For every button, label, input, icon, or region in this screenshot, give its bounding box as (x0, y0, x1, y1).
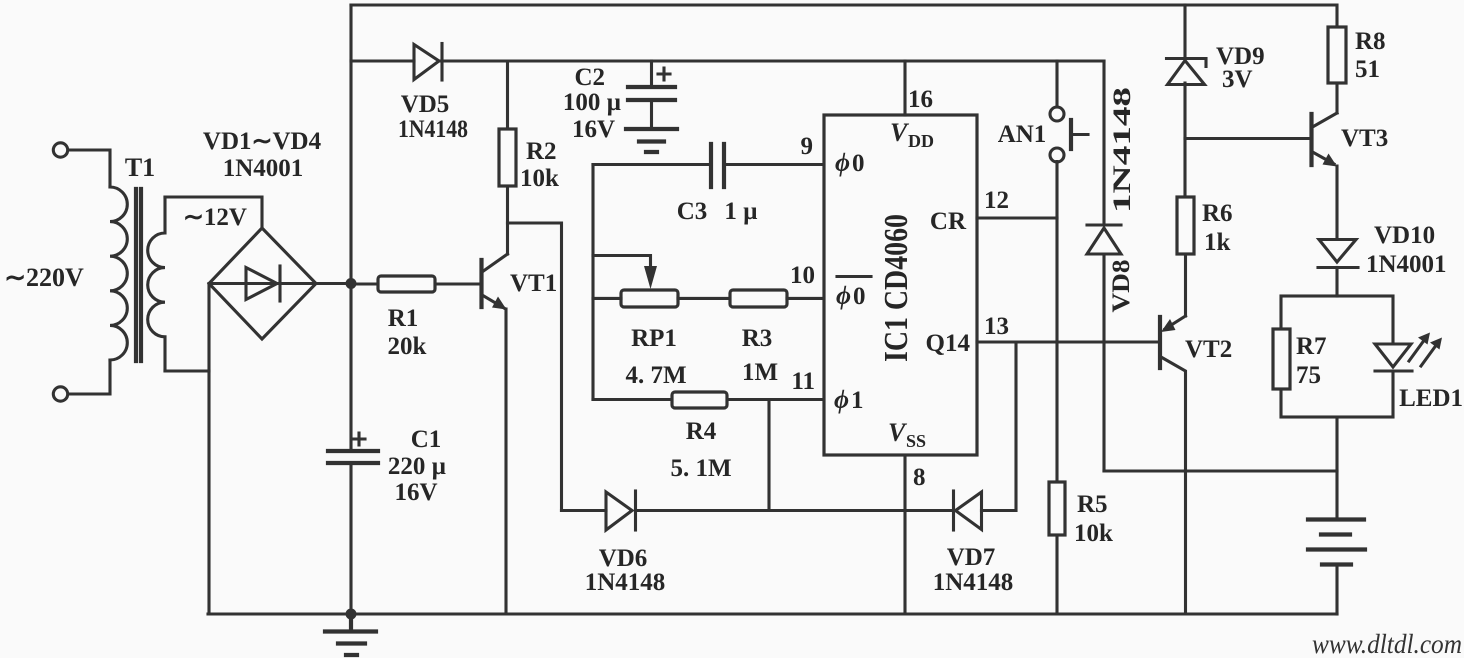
wire C2 top lead (650, 61, 653, 87)
svg-text:5. 1M: 5. 1M (670, 455, 731, 482)
svg-text:R3: R3 (742, 325, 773, 352)
resistor R8 (1328, 27, 1346, 83)
wire oscillator left bus (591, 165, 594, 400)
wire left vertical bus lower (349, 463, 352, 614)
svg-text:DD: DD (908, 131, 934, 151)
terminal primary bottom (53, 387, 67, 401)
resistor R6 (1177, 197, 1194, 254)
transistor VT1 (479, 260, 483, 307)
ground C2 (626, 129, 677, 152)
svg-text:1k: 1k (1204, 229, 1231, 256)
svg-text:11: 11 (791, 368, 815, 395)
svg-text:VT1: VT1 (510, 270, 557, 297)
wire AN1 top lead (1055, 61, 1058, 107)
svg-text:CR: CR (930, 208, 967, 235)
wire C2 bottom lead (650, 100, 653, 129)
node rectifier output junction (346, 278, 357, 289)
svg-text:4. 7M: 4. 7M (625, 362, 686, 389)
svg-text:VD6: VD6 (599, 545, 648, 572)
svg-text:R6: R6 (1202, 200, 1233, 227)
wire R3 to pin 10 (787, 297, 824, 300)
wire VT1 emitter to ground rail (504, 309, 507, 614)
svg-text:16V: 16V (394, 479, 437, 506)
resistor R1 (378, 276, 435, 292)
svg-text:RP1: RP1 (631, 325, 677, 352)
resistor R7 (1273, 329, 1290, 389)
svg-text:C2: C2 (574, 64, 605, 91)
wire battery to ground rail (1335, 565, 1338, 614)
wire VD8 cathode lead (1102, 61, 1105, 225)
svg-text:V: V (890, 118, 910, 147)
push button AN1 (1050, 107, 1064, 121)
svg-text:∼12V: ∼12V (183, 204, 247, 231)
svg-text:1N4001: 1N4001 (1366, 251, 1447, 278)
wire AN1 bottom lead to R5 (1055, 162, 1058, 483)
svg-text:1N4148: 1N4148 (398, 116, 468, 143)
svg-text:R5: R5 (1077, 491, 1108, 518)
ground main (325, 614, 376, 655)
svg-text:C3: C3 (677, 198, 708, 225)
svg-text:T1: T1 (125, 153, 155, 182)
potentiometer RP1 (621, 290, 678, 307)
wire VT3 base (1185, 137, 1311, 140)
wire battery positive row (1104, 469, 1337, 472)
terminal primary top (53, 143, 67, 157)
resistor R5 (1049, 482, 1065, 535)
svg-text:220 µ: 220 µ (388, 453, 446, 480)
wire R7 LED1 parallel loop (1281, 296, 1393, 417)
svg-text:ϕ: ϕ (836, 281, 851, 310)
svg-text:3V: 3V (1222, 66, 1253, 93)
wire bridge negative leg to ground rail (207, 284, 210, 615)
svg-text:www.dltdl.com: www.dltdl.com (1312, 629, 1462, 658)
capacitor C2 (628, 87, 675, 100)
wire primary bottom lead (68, 360, 110, 394)
wire VD7 to Q14 row (982, 342, 1017, 511)
svg-text:1N4148: 1N4148 (1109, 87, 1136, 213)
svg-text:1 µ: 1 µ (724, 198, 757, 225)
svg-text:1N4148: 1N4148 (933, 569, 1014, 596)
wire VT3 emitter to VD10 (1335, 166, 1338, 238)
wire pin 11 row to VD6 row (767, 400, 770, 511)
resistor R3 (730, 290, 787, 307)
svg-text:1N4001: 1N4001 (223, 155, 304, 182)
wire R5 to ground rail (1055, 535, 1058, 614)
wire VT2 collector to ground rail (1161, 357, 1186, 614)
diode VD10 (1319, 240, 1356, 263)
svg-text:10k: 10k (520, 165, 559, 192)
wire VDD supply rail (441, 59, 1104, 62)
wire R2 bottom branch to VD6 row (508, 223, 562, 511)
wire VD9 cathode lead (1183, 5, 1186, 58)
bridge rectifier VD1~VD4 diamond (209, 228, 316, 339)
IC U1 CD4060 body (824, 115, 977, 455)
transistor VT2 (1158, 317, 1162, 368)
wire primary top lead (68, 150, 110, 187)
wire node to R1 and R1 to VT1 base (351, 282, 480, 285)
svg-text:LED1: LED1 (1399, 385, 1463, 412)
zener diode VD9 (1167, 59, 1207, 67)
svg-text:1: 1 (851, 387, 864, 414)
polarity plus C2 (658, 68, 670, 80)
wire top supply bus from left bus to R8 (351, 5, 1337, 27)
wire secondary bottom lead (165, 369, 209, 372)
wire bridge output to node (316, 282, 351, 285)
diode VD6 (606, 492, 632, 530)
wire pin 13 to VT2 base (977, 340, 1160, 343)
wire VD9 anode to R6 and VT3 base node (1183, 83, 1186, 197)
node ground junction (346, 609, 357, 620)
svg-text:8: 8 (913, 464, 926, 491)
svg-text:R2: R2 (526, 138, 557, 165)
transformer T1 primary winding (110, 187, 127, 360)
capacitor C1 (328, 451, 378, 463)
wire pin 16 (903, 61, 906, 115)
resistor R4 (672, 392, 727, 408)
wire bottom ground rail (208, 612, 1337, 615)
svg-text:16V: 16V (572, 116, 615, 143)
wire R6 to VT2 emitter (1184, 254, 1187, 316)
polarity plus C1 (353, 433, 365, 445)
svg-text:12: 12 (984, 187, 1009, 214)
svg-text:VD7: VD7 (947, 544, 996, 571)
svg-text:VD5: VD5 (401, 91, 450, 118)
resistor R2 (499, 129, 516, 186)
battery GB (1308, 520, 1365, 565)
svg-text:V: V (888, 418, 908, 447)
LED LED1 (1379, 345, 1408, 370)
svg-text:ϕ: ϕ (835, 148, 850, 177)
svg-text:∼220V: ∼220V (4, 263, 84, 292)
svg-text:R4: R4 (686, 418, 717, 445)
svg-text:AN1: AN1 (998, 121, 1047, 148)
capacitor C3 (711, 144, 724, 187)
svg-text:1M: 1M (742, 359, 778, 386)
svg-text:Q14: Q14 (926, 330, 971, 357)
wire RP1 wiper (593, 256, 651, 269)
svg-text:ϕ: ϕ (834, 385, 849, 414)
bridge rectifier inner diode (209, 282, 316, 285)
wire VD6 to VD7 (636, 509, 954, 512)
svg-text:16: 16 (908, 86, 933, 113)
wire secondary top lead (165, 197, 262, 228)
diode VD7 (952, 491, 955, 530)
wire VD8 anode lead to battery row (1102, 254, 1105, 471)
svg-text:R1: R1 (388, 305, 419, 332)
wire R2 leads (506, 61, 509, 254)
svg-text:IC1 CD4060: IC1 CD4060 (878, 214, 915, 362)
svg-text:R7: R7 (1296, 333, 1327, 360)
diode VD5 (414, 45, 439, 80)
wire pin 12 to AN1 (977, 216, 1057, 219)
svg-text:75: 75 (1296, 362, 1321, 389)
wire oscillator bus to C3 and C3 to pin 9 (593, 163, 824, 166)
svg-text:9: 9 (801, 133, 814, 160)
svg-text:VD10: VD10 (1374, 222, 1435, 249)
svg-text:10k: 10k (1074, 520, 1113, 547)
svg-text:VT3: VT3 (1341, 125, 1388, 152)
svg-text:C1: C1 (411, 426, 442, 453)
svg-text:10: 10 (790, 262, 815, 289)
wire RP1 leads (593, 297, 730, 300)
svg-text:0: 0 (852, 150, 865, 177)
svg-text:SS: SS (906, 431, 926, 451)
diode VD8 (1087, 223, 1121, 226)
svg-text:VD8: VD8 (1108, 260, 1135, 313)
wire R4 leads to pin 11 (593, 398, 824, 401)
svg-text:R8: R8 (1355, 28, 1386, 55)
svg-text:1N4148: 1N4148 (585, 569, 666, 596)
transistor VT3 (1309, 114, 1313, 165)
svg-text:100 µ: 100 µ (563, 89, 621, 116)
wire pin 8 to ground rail (903, 455, 906, 614)
wire VD10 to lamp box (1335, 268, 1338, 297)
svg-text:20k: 20k (388, 333, 427, 360)
svg-text:VD1∼VD4: VD1∼VD4 (203, 128, 322, 155)
wire lamp box to battery (1335, 417, 1338, 519)
transformer T1 secondary winding (148, 197, 165, 371)
wire left vertical bus upper (349, 5, 352, 451)
wire rectified to VD5 (351, 59, 414, 62)
svg-text:13: 13 (984, 313, 1009, 340)
svg-text:51: 51 (1355, 56, 1380, 83)
svg-text:0: 0 (853, 283, 866, 310)
wire VD6 row left lead (562, 509, 607, 512)
transformer T1 core (136, 189, 141, 361)
svg-text:VT2: VT2 (1185, 336, 1232, 363)
